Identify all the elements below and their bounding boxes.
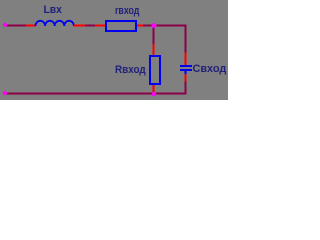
wire: top rail right segment to corner — [143, 25, 187, 27]
wire: bottom rail — [5, 93, 187, 95]
wire: top rail middle segment — [85, 25, 95, 27]
svg-text:Свход: Свход — [193, 63, 227, 75]
wire: inductor right lead — [74, 25, 85, 27]
svg-text:Lвх: Lвх — [44, 4, 62, 16]
wire: resistor rвход right lead — [137, 25, 143, 27]
node: junction top (rвход / Rвход) — [152, 23, 157, 28]
wire: resistor rвход left lead — [95, 25, 106, 27]
node: input terminal top — [3, 23, 7, 27]
wire: right branch lower (to bottom rail corner) — [185, 82, 187, 95]
wire: resistor Rвход bottom lead — [153, 85, 155, 93]
wire: top rail left segment (terminal to inductor) — [7, 25, 27, 27]
wire: middle branch upper (junction down) — [153, 26, 155, 44]
wire: capacitor top lead — [185, 53, 187, 66]
capacitor bottom stub — [185, 71, 187, 74]
svg-text:Rвход: Rвход — [115, 65, 146, 77]
wire: inductor left lead — [26, 25, 36, 27]
node: input terminal bottom — [3, 91, 7, 95]
wire: capacitor bottom lead — [185, 74, 187, 82]
wire: right branch upper (corner down to capacitor lead) — [185, 25, 187, 53]
node: junction bottom (Rвход / rail) — [152, 92, 156, 96]
inductor Lвх — [36, 21, 74, 26]
capacitor Свход plates — [180, 65, 192, 67]
svg-text:rвход: rвход — [115, 5, 140, 17]
resistor rвход (series, horizontal box) — [106, 21, 136, 31]
wire: resistor Rвход top lead — [153, 44, 155, 56]
resistor Rвход (shunt, vertical box) — [150, 56, 160, 84]
